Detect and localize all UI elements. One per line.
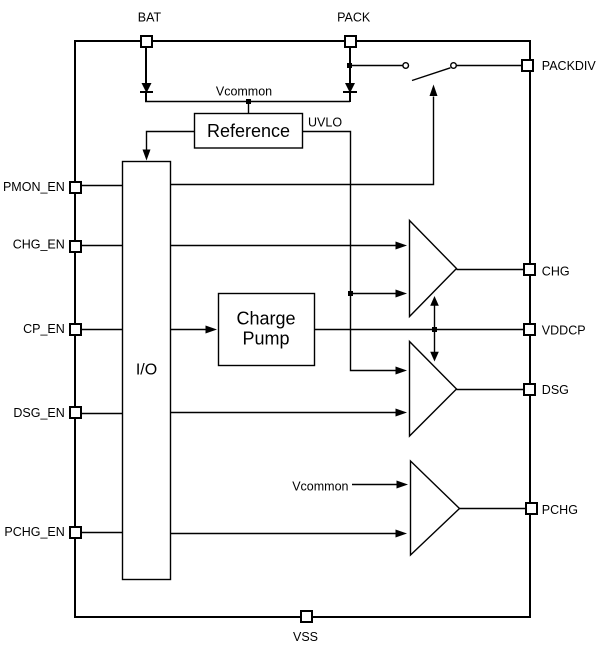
svg-text:PACK: PACK [337, 11, 371, 25]
svg-text:Charge: Charge [236, 308, 295, 328]
svg-text:Vcommon: Vcommon [292, 480, 348, 494]
svg-text:Reference: Reference [207, 121, 290, 141]
svg-text:Pump: Pump [242, 328, 289, 348]
svg-text:Vcommon: Vcommon [216, 85, 272, 99]
svg-text:VSS: VSS [293, 630, 318, 644]
svg-text:UVLO: UVLO [308, 116, 342, 130]
svg-text:CP_EN: CP_EN [23, 322, 65, 336]
svg-text:I/O: I/O [136, 362, 157, 379]
svg-text:DSG_EN: DSG_EN [13, 406, 64, 420]
svg-text:DSG: DSG [542, 383, 569, 397]
svg-text:VDDCP: VDDCP [542, 323, 586, 337]
svg-text:PMON_EN: PMON_EN [3, 180, 65, 194]
svg-text:BAT: BAT [138, 11, 162, 25]
svg-text:PCHG_EN: PCHG_EN [4, 525, 64, 539]
svg-text:PACKDIV: PACKDIV [542, 59, 597, 73]
svg-text:CHG: CHG [542, 264, 570, 278]
svg-text:CHG_EN: CHG_EN [13, 238, 65, 252]
svg-text:PCHG: PCHG [542, 503, 578, 517]
